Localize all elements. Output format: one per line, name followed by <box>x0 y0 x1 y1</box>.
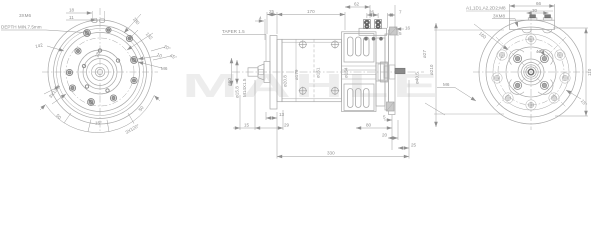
svg-text:4: 4 <box>259 16 262 21</box>
svg-text:15°: 15° <box>580 98 588 107</box>
leader 15deg <box>566 90 581 99</box>
dim 5 top right <box>397 30 399 36</box>
scallop arc 1 <box>509 50 524 65</box>
right hub 4 <box>528 69 534 75</box>
right outer circle <box>479 20 583 124</box>
svg-text:5: 5 <box>383 115 386 120</box>
small hole inner left <box>82 64 85 67</box>
svg-text:3XM6: 3XM6 <box>19 13 31 18</box>
dim 15 <box>233 127 240 129</box>
right texts <box>429 1 592 107</box>
rear hub <box>376 63 387 81</box>
tab ext line 3 <box>104 11 106 20</box>
left view circle d152 <box>61 33 140 112</box>
svg-text:DEPTH MIN.7.5mm: DEPTH MIN.7.5mm <box>1 25 42 30</box>
svg-text:16: 16 <box>405 26 411 31</box>
left view hub inner <box>97 69 102 74</box>
3xM6 leader <box>46 30 84 33</box>
right circle 4 <box>506 47 556 97</box>
top tab right <box>100 19 105 23</box>
scallop arc 4 <box>509 80 524 95</box>
dim 4 <box>255 20 264 22</box>
rear mid lines <box>342 65 377 67</box>
svg-text:M6: M6 <box>161 66 168 71</box>
dim 142 leader <box>47 46 64 51</box>
dia 15.8 dim <box>236 60 238 84</box>
terminal block <box>359 28 387 35</box>
svg-text:80: 80 <box>366 123 372 128</box>
rear housing <box>342 32 377 112</box>
rear plate bolt bottom <box>387 102 395 111</box>
lower-left leader 1 <box>52 94 66 104</box>
dim 66 <box>510 5 555 7</box>
arc tick 1 <box>64 113 71 123</box>
dim 16 leader <box>396 28 404 30</box>
rv kidney hole 3 <box>514 81 522 89</box>
bump below block left <box>522 30 532 33</box>
label line A1 <box>466 10 553 12</box>
middle body cross marks <box>299 40 340 95</box>
svg-text:132: 132 <box>145 31 154 40</box>
dim 80 <box>356 127 392 129</box>
stud left <box>528 15 537 20</box>
svg-text:62: 62 <box>354 2 360 7</box>
left view holes <box>66 27 137 105</box>
right dimension lines <box>425 4 588 127</box>
right circle 2 <box>486 27 576 117</box>
dim 180 leader <box>124 14 141 33</box>
left view circle d54 <box>87 59 114 86</box>
svg-text:M6: M6 <box>443 82 450 87</box>
d210 ext bottom <box>434 113 504 115</box>
brush layer <box>385 34 389 110</box>
dim 18 line <box>66 12 92 14</box>
arc tick 4 <box>128 113 134 124</box>
hole plain right-low <box>131 77 137 83</box>
vent box top <box>344 34 374 63</box>
middle centerline <box>232 71 424 73</box>
cross mark 2 <box>331 40 339 48</box>
small hole inner bottom <box>106 89 109 92</box>
hole M6 threaded top-left <box>84 30 91 37</box>
rv kidney hole 1 <box>514 55 522 63</box>
rv kidney hole 2 <box>540 55 548 63</box>
left view hub outer <box>95 67 105 77</box>
svg-text:20°: 20° <box>163 44 172 52</box>
shaft taper <box>258 64 264 80</box>
diagonal centerline 2 <box>496 37 566 107</box>
svg-text:50: 50 <box>55 113 62 120</box>
hub through plate <box>389 65 395 79</box>
dim 25 <box>267 14 277 16</box>
hole plain left <box>66 69 72 75</box>
right hub circle <box>518 59 544 85</box>
dim 330 <box>277 156 409 158</box>
body inner line 2 <box>295 39 297 101</box>
svg-text:29: 29 <box>284 123 290 128</box>
svg-text:ø20.8: ø20.8 <box>283 75 288 87</box>
dim M6 leader <box>138 62 162 68</box>
cross mark 1 <box>299 40 307 48</box>
svg-text:M14X1.5: M14X1.5 <box>242 78 247 97</box>
svg-text:11: 11 <box>69 15 74 20</box>
svg-text:ø151: ø151 <box>316 67 321 78</box>
svg-text:ø15.8: ø15.8 <box>235 86 240 98</box>
svg-text:25: 25 <box>269 9 275 14</box>
hole M6 threaded right <box>131 57 138 64</box>
svg-text:ø40.5: ø40.5 <box>415 72 420 84</box>
rv kidney hole 4 <box>540 81 548 89</box>
svg-text:A1,1D1,A2,2D2;M8: A1,1D1,A2,2D2;M8 <box>466 6 506 11</box>
svg-text:180: 180 <box>132 16 141 25</box>
vent slots bottom <box>348 89 370 108</box>
left view bolt circle d132 <box>66 38 134 106</box>
right scallop circle <box>493 34 569 110</box>
rectifier layer <box>376 38 385 106</box>
shaft stub rear <box>381 62 388 82</box>
bearing rect 1 <box>378 64 384 80</box>
body wall bottom <box>282 98 342 100</box>
leader 4d9 <box>543 53 545 56</box>
rv hole 6 <box>505 95 510 100</box>
arc arrow right <box>154 96 160 102</box>
hole M6 threaded bottom <box>88 99 95 106</box>
svg-text:3X120°: 3X120° <box>124 123 140 135</box>
svg-text:5: 5 <box>399 31 402 36</box>
d210 ext top <box>434 29 504 31</box>
tab ext line 1 <box>91 11 93 20</box>
left view hub ring <box>92 64 109 81</box>
dim 25r <box>398 147 409 149</box>
rear stud M6 <box>395 68 405 73</box>
rv hole 8 <box>528 102 533 107</box>
radial tick upper right <box>128 30 138 40</box>
right view holes <box>492 34 570 110</box>
body inner line <box>313 39 315 101</box>
right centerline vertical <box>530 14 532 130</box>
top tab left <box>92 19 97 23</box>
svg-text:ø154: ø154 <box>344 67 349 78</box>
rear plate bolt top <box>390 27 398 35</box>
shaft collar <box>264 62 270 83</box>
rv hole 5 <box>562 75 567 80</box>
stud B+ left <box>363 20 370 29</box>
middle texts <box>222 2 427 156</box>
svg-text:7: 7 <box>399 10 402 15</box>
rv hole 3 <box>557 52 562 57</box>
stud right <box>543 15 552 20</box>
left view texts <box>1 8 178 135</box>
main body <box>282 39 342 101</box>
dim 7 <box>388 14 396 16</box>
taper leader <box>222 34 266 36</box>
svg-text:25: 25 <box>411 143 417 148</box>
dim 13 <box>266 117 277 119</box>
svg-text:26: 26 <box>369 10 375 15</box>
svg-text:3XM8: 3XM8 <box>493 14 505 19</box>
angular dim arc bottom <box>46 96 155 133</box>
shaft thread section <box>248 68 258 76</box>
hole plain top-center <box>106 27 111 32</box>
svg-text:13: 13 <box>279 112 285 117</box>
rv hole 2 <box>499 52 504 57</box>
right centerline horizontal <box>473 71 589 73</box>
svg-text:15: 15 <box>244 123 250 128</box>
cross mark 3 <box>299 87 307 95</box>
left view circle d66 <box>83 55 117 89</box>
scallop arc 3 <box>538 80 553 95</box>
angle 20 leader <box>151 47 165 51</box>
svg-text:45°: 45° <box>169 53 178 61</box>
small hole inner top <box>98 49 101 52</box>
arc arrow left <box>40 105 46 111</box>
svg-text:30: 30 <box>532 8 538 13</box>
dim 62 <box>345 6 370 8</box>
body wall top <box>282 41 342 43</box>
rv hole 7 <box>551 95 556 100</box>
terminal studs <box>363 20 382 41</box>
svg-text:TAPER 1.5: TAPER 1.5 <box>222 29 245 34</box>
svg-text:160: 160 <box>478 31 487 40</box>
bump below block right <box>543 30 553 33</box>
svg-text:18: 18 <box>69 8 75 13</box>
dim 132 leader <box>127 33 153 50</box>
leader 160 <box>474 24 508 50</box>
svg-text:330: 330 <box>327 151 335 156</box>
right hub 2 <box>522 63 541 82</box>
dim 29 <box>255 127 283 129</box>
cross mark 4 <box>331 87 339 95</box>
flange plate <box>270 36 277 110</box>
left view circle d180 <box>54 26 147 119</box>
hole plain lower-left <box>69 85 75 91</box>
middle dimension lines <box>222 5 409 159</box>
lower-left leader 2 <box>44 86 60 94</box>
terminal block front <box>510 20 555 29</box>
small hole inner right <box>116 59 119 62</box>
svg-text:50: 50 <box>138 105 145 112</box>
front band <box>277 39 282 101</box>
left view dimension lines <box>40 11 171 133</box>
svg-text:110: 110 <box>587 68 592 76</box>
M6 extra leader <box>425 103 445 115</box>
petal ring around holes <box>492 34 570 110</box>
leader M6 right <box>437 87 455 89</box>
rear plate adapter <box>389 30 396 115</box>
vent box bottom <box>344 84 374 111</box>
shaft key slot <box>259 70 264 75</box>
right bolt circle <box>498 39 564 105</box>
svg-text:66: 66 <box>536 1 542 6</box>
svg-text:ø179: ø179 <box>294 69 299 80</box>
rv hole 4 <box>494 75 499 80</box>
rings below block <box>364 37 383 41</box>
dim 26 <box>367 14 378 16</box>
tab ext line 2 <box>96 18 98 22</box>
svg-text:ø27: ø27 <box>422 50 427 58</box>
hole plain bottom-right <box>110 95 116 101</box>
rv hole 1 <box>528 36 533 41</box>
left view centerline horizontal <box>42 71 158 73</box>
bearing rect 2 <box>384 66 389 78</box>
dim 20 <box>388 137 398 139</box>
left view circle d87 ring <box>57 29 144 116</box>
svg-text:ø210: ø210 <box>429 64 434 75</box>
vent slots top <box>348 37 370 56</box>
stud B+ right <box>375 20 382 29</box>
svg-text:15°: 15° <box>95 121 102 126</box>
small hole inner bottom-left <box>85 85 88 88</box>
right hub 2b <box>524 65 538 79</box>
hole plain top-right <box>126 35 132 41</box>
dim 110 vertical <box>585 28 587 116</box>
angle 45 leader <box>153 56 171 60</box>
right hub 3 <box>526 67 536 77</box>
dia 60 dim line <box>231 58 233 86</box>
svg-text:142: 142 <box>35 42 44 49</box>
leader 3XM8 <box>492 18 515 20</box>
scallop arc 2 <box>538 50 553 65</box>
left view centerline vertical <box>99 8 101 132</box>
svg-text:4ø9: 4ø9 <box>536 49 544 54</box>
arc tick 2 <box>88 120 91 132</box>
dim d210 vertical <box>435 23 437 127</box>
arc tick 3 <box>107 120 109 132</box>
diagonal centerline 1 <box>496 37 566 107</box>
dim 30 <box>527 12 549 14</box>
svg-text:170: 170 <box>307 9 315 14</box>
left view circle d86 <box>78 50 122 94</box>
dim 11 line <box>66 19 96 21</box>
left view outer circle <box>48 20 152 124</box>
dim 10 leader <box>138 56 158 59</box>
dim 170 <box>277 14 345 16</box>
svg-text:20: 20 <box>382 133 388 138</box>
svg-text:ø60: ø60 <box>227 78 232 86</box>
dim 5b <box>384 119 392 121</box>
hole plain upper-left <box>75 48 81 54</box>
